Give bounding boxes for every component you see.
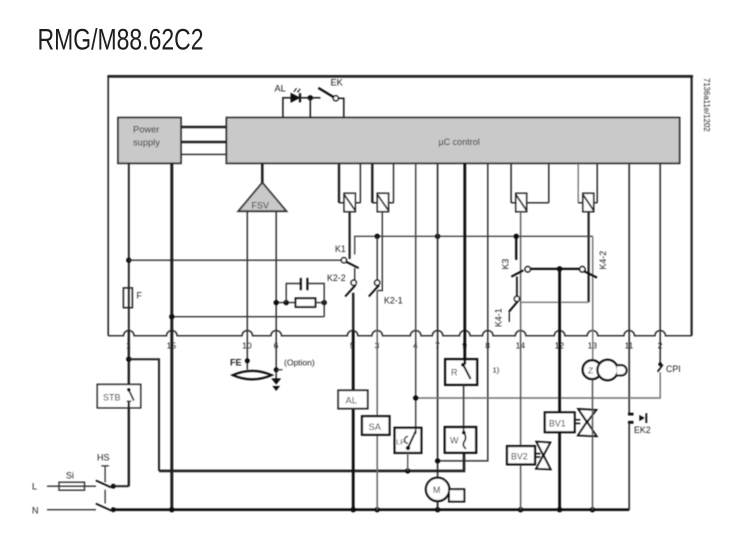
svg-text:µC control: µC control xyxy=(439,137,480,147)
svg-text:M: M xyxy=(433,485,440,495)
wire relay K3 output to terminal 14 xyxy=(520,212,522,331)
svg-text:L: L xyxy=(32,482,37,492)
node dot terminal7/terminal8 xyxy=(435,458,440,463)
wire R right xyxy=(315,302,324,304)
connector EK2 xyxy=(628,413,646,423)
wire FSV to terminal 10 xyxy=(246,211,248,369)
svg-text:CPI: CPI xyxy=(666,364,681,374)
node dot wire D / terminal 4 xyxy=(413,395,418,400)
node dot N / terminal 15 xyxy=(169,507,174,512)
node dot wire E / LP xyxy=(405,468,410,473)
ground symbol (option) xyxy=(271,378,281,391)
fuse Si xyxy=(59,482,85,490)
wire relay K4 output xyxy=(587,212,589,303)
contact K2-1 xyxy=(369,280,380,296)
box SA xyxy=(362,416,390,435)
node dot wire B / terminal 12 xyxy=(557,266,563,272)
power supply box xyxy=(118,118,181,164)
node dot N / terminal 3 xyxy=(375,507,380,512)
svg-text:BV2: BV2 xyxy=(511,451,528,461)
node dot wire A / K2-1 xyxy=(375,234,380,239)
contact K3 xyxy=(511,267,530,277)
svg-text:K1: K1 xyxy=(335,244,346,254)
wire K2-2 to terminal 5 xyxy=(352,293,354,331)
relay K4 coil xyxy=(578,164,597,212)
svg-text:K4-2: K4-2 xyxy=(598,251,608,270)
wire E horizontal to W xyxy=(159,453,464,471)
wire capacitor branch right xyxy=(308,284,324,317)
valve BV2 box xyxy=(507,446,535,464)
motor M xyxy=(426,478,464,502)
wire EK to uC right leg xyxy=(338,98,343,118)
wire capacitor branch left xyxy=(286,284,300,303)
svg-text:Si: Si xyxy=(66,471,74,481)
node junction dot AL/EK xyxy=(308,95,313,100)
node dot HS N xyxy=(111,507,116,512)
wire terminal 13 line lower xyxy=(592,380,594,510)
wire junction middle leg xyxy=(309,98,311,118)
wire E branch to W (left part) xyxy=(129,359,159,471)
fuse F xyxy=(123,288,132,308)
switch HS pole N xyxy=(96,504,111,511)
resistor R snubber xyxy=(296,298,316,307)
limiter STB box xyxy=(97,384,140,407)
wire A feed rail y=236 xyxy=(355,236,593,254)
node dot N / motor xyxy=(435,507,440,512)
uC control box xyxy=(226,118,679,164)
svg-text:BV1: BV1 xyxy=(549,418,566,428)
svg-text:Power: Power xyxy=(133,125,159,135)
wire power supply to uC (3 links) xyxy=(181,127,226,154)
wire N lead xyxy=(47,509,96,511)
wire diode to junction xyxy=(300,97,321,99)
switch HS linkage xyxy=(101,466,109,504)
svg-text:EK: EK xyxy=(331,78,344,88)
node dot wire A / K3 xyxy=(514,234,519,239)
relay K3 coil xyxy=(511,164,549,212)
wire terminal 14 line lower xyxy=(520,331,522,510)
wire K3 feed stub xyxy=(515,236,517,260)
svg-text:N: N xyxy=(32,506,39,516)
svg-text:F: F xyxy=(137,291,143,301)
svg-text:FSV: FSV xyxy=(252,201,270,211)
svg-text:K4-1: K4-1 xyxy=(494,308,504,327)
wire terminal 4 line xyxy=(415,163,417,428)
wire K4-1 stub xyxy=(508,312,510,322)
diode AL (LED) xyxy=(291,88,300,102)
svg-text:FE: FE xyxy=(230,358,242,368)
wire terminal 5 line lower xyxy=(352,331,355,510)
wire terminal 7 line xyxy=(437,163,439,478)
valve BV1 box xyxy=(545,412,575,432)
contact K4-2 xyxy=(580,267,597,278)
wire L lead xyxy=(47,485,96,487)
wire FE drop from terminal 10 xyxy=(245,358,250,363)
snubber block: wire from terminal6 line xyxy=(276,302,295,304)
contact STB thermal xyxy=(127,388,134,401)
wire D CPI rail y=398 xyxy=(416,372,661,398)
wire option tick xyxy=(276,369,282,371)
wire to K1 pivot xyxy=(129,259,341,261)
box W thermostat xyxy=(445,427,476,453)
wire C K4 bottom rail xyxy=(521,301,589,303)
node dot N / terminal 5 xyxy=(351,507,356,512)
svg-text:R: R xyxy=(451,368,458,378)
wire FSV to terminal 6 xyxy=(275,211,277,380)
node dot N / BV2 xyxy=(518,507,523,512)
svg-text:AL: AL xyxy=(346,396,357,406)
contact K2-2 xyxy=(345,280,356,296)
wire K2-1 to terminal 3 xyxy=(376,291,378,331)
node dot N / Z xyxy=(590,507,595,512)
wire M to N bus xyxy=(437,501,439,510)
svg-text:STB: STB xyxy=(103,393,121,403)
valve BV2 body xyxy=(536,442,551,470)
capacitor C snubber xyxy=(301,278,308,290)
wire terminal 12 line lower xyxy=(558,269,561,510)
wire K2-1 feed from wire A xyxy=(376,236,378,280)
wire terminal 3 line lower xyxy=(376,331,378,510)
wire terminal 8 line xyxy=(438,163,488,461)
svg-text:7136a11e/1202: 7136a11e/1202 xyxy=(702,78,711,132)
wire R to W xyxy=(463,385,465,427)
wire HS to STB xyxy=(113,485,129,487)
svg-text:1): 1) xyxy=(493,366,500,375)
svg-text:supply: supply xyxy=(133,138,160,148)
contact LP interior xyxy=(405,428,417,450)
contact W interior xyxy=(462,427,466,449)
wire relay K2 output to K2-1 blade and terminal 3 xyxy=(377,212,382,291)
valve BV2 stem xyxy=(535,454,541,457)
valve BV1 body xyxy=(578,409,597,436)
frame border xyxy=(107,75,693,335)
flame sensor lens xyxy=(233,371,272,380)
svg-text:(Option): (Option) xyxy=(284,358,315,368)
wire terminal 9 line xyxy=(463,163,466,364)
svg-text:HS: HS xyxy=(97,453,110,463)
contact CPI xyxy=(658,362,663,371)
wire K3 blade to K4-1 xyxy=(516,277,518,297)
wire terminal 1 line xyxy=(128,163,130,331)
wire terminal 11 line upper xyxy=(628,163,630,413)
svg-text:K2-1: K2-1 xyxy=(384,296,403,306)
wire K1 to K2-2 xyxy=(354,268,356,280)
svg-text:Z: Z xyxy=(588,365,593,375)
wire N bus xyxy=(113,508,629,511)
wire LP bottom xyxy=(407,453,409,471)
node dot snubber R left xyxy=(284,300,289,305)
svg-text:RMG/M88.62C2: RMG/M88.62C2 xyxy=(38,24,204,57)
svg-text:W: W xyxy=(450,436,459,446)
svg-text:AL: AL xyxy=(275,84,286,94)
box R flame relay xyxy=(445,359,477,385)
wire snubber bottom to terminal 15 line xyxy=(172,316,324,318)
node dot STB branch xyxy=(126,357,131,362)
terminal numbers 1 15 10 6 5 3 4 7 9 8 14 12 13 11 2 xyxy=(126,341,663,351)
wire AL diode branch left leg xyxy=(283,98,291,118)
wire terminal 11 line lower xyxy=(628,424,630,510)
node dot wire A / terminal 7 line xyxy=(435,234,440,239)
switch EK xyxy=(318,88,338,101)
wire relay K1 output xyxy=(349,212,351,259)
node dot N / BV1 xyxy=(557,507,562,512)
wire terminal 15 line xyxy=(170,163,173,509)
contact K1 xyxy=(341,258,358,269)
node dot option earth xyxy=(274,367,279,372)
alarm box AL xyxy=(338,390,368,408)
limiter STB wire upper xyxy=(128,331,130,389)
ignition Z transformer xyxy=(583,360,627,380)
wire B K3 to K4-2 xyxy=(530,268,579,270)
contact R interior xyxy=(461,359,471,379)
svg-text:EK2: EK2 xyxy=(634,425,651,435)
relay K1 coil xyxy=(339,164,360,212)
node dot snubber R right xyxy=(322,300,327,305)
node dot snubber/terminal15 xyxy=(169,314,174,319)
flame amplifier FSV xyxy=(238,163,286,211)
valve BV1 stem xyxy=(575,420,581,424)
wire terminal 2 line upper xyxy=(659,163,661,363)
contact K4-1 xyxy=(509,296,520,312)
relay K2 coil xyxy=(372,164,393,212)
terminal strip bottom edge with bumps xyxy=(108,330,691,335)
svg-text:K2-2: K2-2 xyxy=(327,273,346,283)
node dot snubber left on terminal 6 line xyxy=(274,300,279,305)
svg-text:K3: K3 xyxy=(501,259,511,270)
svg-text:SA: SA xyxy=(369,422,382,432)
node dot HS L xyxy=(111,484,116,489)
box LP pressure switch xyxy=(395,428,422,453)
switch HS pole L xyxy=(96,480,111,487)
node dot terminal1/K1 wire xyxy=(126,258,131,263)
limiter STB wire lower xyxy=(128,402,130,486)
wire A drop to terminal 13 xyxy=(592,236,594,360)
